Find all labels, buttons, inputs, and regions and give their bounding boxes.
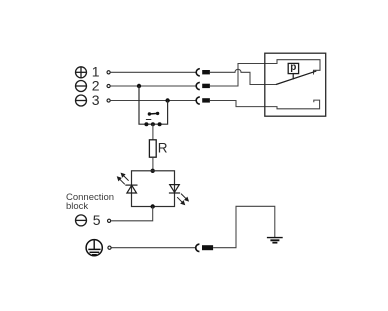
node earth (open dot) bbox=[108, 246, 111, 249]
wire earth left bbox=[112, 247, 196, 249]
link seat dash bbox=[146, 119, 151, 121]
node 3 (open dot) bbox=[107, 99, 110, 102]
wire earth right to ground bbox=[213, 206, 275, 247]
svg-text:R: R bbox=[158, 140, 168, 155]
wire 3 left bbox=[111, 100, 197, 102]
pressure actuator box P bbox=[288, 62, 298, 79]
node 5 (open dot) bbox=[108, 219, 111, 222]
junction on wire 2 bbox=[137, 84, 141, 88]
resistor R bbox=[149, 140, 156, 157]
terminal 3 (minus) bbox=[76, 95, 87, 106]
LED block frame bbox=[132, 171, 175, 207]
removable link bbox=[148, 112, 160, 116]
jumper pin C bbox=[158, 122, 162, 126]
LED D1 emission arrows bbox=[118, 173, 129, 184]
LED D2 (right, anode up) bbox=[169, 185, 180, 193]
pressure switch enclosure box bbox=[265, 53, 326, 116]
junction LED block bottom bbox=[151, 204, 155, 208]
wire resistor to LED block bbox=[152, 157, 154, 171]
terminal 1 (plus) bbox=[76, 67, 87, 78]
wire 1 right with hop over wire 2 riser, down to switch common bbox=[210, 69, 276, 84]
wire 2 right riser to switch top contact bbox=[210, 60, 320, 86]
junction on wire 3 bbox=[165, 98, 169, 102]
node 1 (open dot) bbox=[107, 71, 110, 74]
terminal 2 (minus) bbox=[76, 81, 87, 92]
ground symbol bbox=[267, 238, 283, 243]
node 2 (open dot) bbox=[107, 84, 110, 87]
wire 2 left bbox=[111, 85, 197, 87]
wire LED block to terminal 5 bbox=[111, 207, 153, 221]
protective earth terminal bbox=[86, 240, 102, 256]
terminal 5 (minus) bbox=[76, 215, 87, 226]
wire jumper to resistor bbox=[152, 124, 154, 140]
junction LED block top bbox=[151, 169, 155, 173]
jumper block frame bbox=[139, 86, 168, 124]
LED D2 emission arrows bbox=[177, 194, 188, 205]
svg-text:p: p bbox=[290, 62, 296, 73]
svg-text:5: 5 bbox=[93, 212, 101, 228]
wire 1 left bbox=[111, 71, 197, 73]
svg-text:block: block bbox=[66, 201, 88, 212]
connector plug 2 bbox=[196, 82, 210, 89]
switch lever (common contact) bbox=[276, 71, 316, 84]
wire 3 right to lower contact stub bbox=[210, 100, 320, 109]
jumper pin B bbox=[151, 122, 155, 126]
jumper pin A bbox=[144, 122, 148, 126]
svg-text:3: 3 bbox=[92, 92, 100, 108]
connector plug 3 bbox=[196, 97, 210, 104]
LED D1 (left, anode down) bbox=[125, 185, 137, 193]
connector plug earth bbox=[196, 244, 213, 251]
connector plug 1 bbox=[196, 69, 210, 76]
